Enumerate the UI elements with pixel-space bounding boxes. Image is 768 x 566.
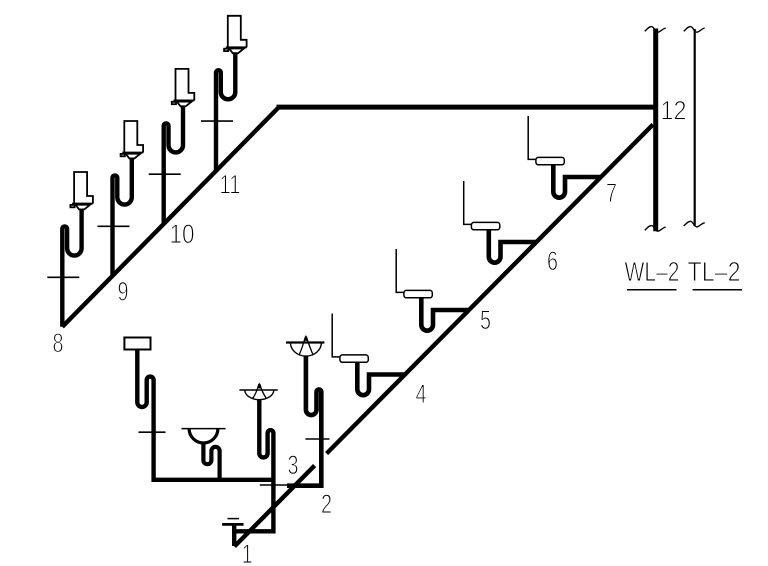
fixture 8 (WC) tick mark: [47, 276, 79, 278]
fixture 4 (basin) basin symbol: [340, 355, 368, 362]
fixture 3 trap and drop (node 3): [234, 400, 273, 532]
svg-text:9: 9: [118, 277, 129, 307]
svg-text:1: 1: [242, 539, 253, 566]
svg-text:7: 7: [606, 178, 617, 208]
break mark top of TL-2 stack: [684, 27, 705, 33]
fixture 11 (WC) tick mark: [201, 120, 233, 122]
wire: upper branch diagonal (node 8 to corner): [62, 107, 278, 326]
break mark bottom of TL-2 stack: [684, 221, 705, 227]
fixture 3 floor drain dart: [258, 384, 262, 389]
break mark top of WL-2 stack: [645, 27, 666, 33]
fixture 10 (WC) cistern symbol: [172, 69, 195, 107]
fixture 9 (WC) tick mark: [98, 225, 130, 227]
fixture 2 floor drain rim line: [286, 341, 324, 343]
svg-text:11: 11: [220, 170, 241, 200]
WL-2 label underline: [627, 289, 677, 291]
fixture 11 (WC) cistern symbol: [224, 16, 247, 54]
fixture 8 (WC) trap pipe: [62, 209, 81, 327]
svg-text:5: 5: [480, 305, 491, 335]
fixture 2 floor drain cone: [299, 337, 305, 355]
fixture 6 (basin) branch pipe and trap: [489, 230, 536, 263]
fixture 5 (basin) branch pipe and trap: [421, 298, 468, 331]
svg-text:8: 8: [53, 328, 64, 358]
tank fixture tick mark: [139, 431, 166, 433]
fixture 10 (WC) tick mark: [149, 173, 181, 175]
fixture 2 floor drain bowl arc: [290, 343, 321, 357]
fixture 8 (WC) cistern symbol: [70, 172, 93, 210]
wire: main diagonal upper segment (crossing break to node 12): [327, 125, 653, 454]
fixture 4 (basin) supply line: [332, 314, 340, 357]
wire: main diagonal lower segment (node 1 to crossing break): [234, 466, 314, 547]
wire: upper branch horizontal run to stack: [277, 105, 654, 110]
node 1 cleanout upper thin line: [228, 518, 240, 520]
fixture 6 (basin) supply line: [464, 181, 472, 224]
floor gully trap to collector: [203, 442, 219, 479]
node 1 cleanout drop: [232, 524, 236, 546]
waste stack WL-2 (thick riser): [653, 29, 658, 232]
fixture 6 (basin) basin symbol: [471, 222, 499, 229]
fixture 11 (WC) trap pipe: [216, 52, 235, 170]
fixture 3 floor drain rim line: [239, 389, 277, 391]
vent stack TL-2 (thin riser): [694, 29, 696, 226]
fixture 3 floor drain bowl arc: [245, 390, 274, 400]
svg-text:4: 4: [416, 379, 427, 409]
node 2 tick mark: [305, 438, 329, 440]
fixture 7 (basin) basin symbol: [536, 157, 564, 164]
fixture 3 floor drain cone: [253, 384, 259, 398]
fixture 2 floor drain dart: [304, 336, 308, 341]
fixture 7 (basin) supply line: [528, 116, 536, 159]
fixture 5 (basin) supply line: [396, 249, 404, 292]
fixture 10 (WC) trap pipe: [164, 105, 183, 223]
svg-text:3: 3: [288, 450, 299, 480]
floor gully rim line: [182, 428, 226, 430]
fixture 5 (basin) basin symbol: [404, 290, 432, 297]
svg-text:2: 2: [321, 489, 332, 519]
fixture 4 (basin) branch pipe and trap: [357, 362, 404, 395]
svg-text:WL–2: WL–2: [625, 256, 680, 287]
svg-text:TL–2: TL–2: [688, 256, 741, 287]
floor gully dome: [189, 429, 218, 443]
node 1 cleanout lower thick line: [222, 523, 244, 526]
fixture 7 (basin) branch pipe and trap: [553, 165, 600, 198]
fixture at node 3 group: cistern tank symbol: [124, 338, 150, 350]
TL-2 label underline: [693, 289, 743, 291]
svg-text:12: 12: [661, 96, 687, 126]
fixture 9 (WC) trap pipe: [113, 158, 132, 276]
fixture 2 trap and drop (node 2): [287, 356, 321, 486]
tank fixture trap and drop to collector: [137, 350, 272, 480]
fixture 9 (WC) cistern symbol: [121, 121, 144, 159]
node 3 tick mark: [260, 484, 291, 486]
break mark bottom of WL-2 stack: [645, 226, 666, 232]
svg-text:6: 6: [547, 246, 558, 276]
svg-text:10: 10: [170, 219, 195, 249]
